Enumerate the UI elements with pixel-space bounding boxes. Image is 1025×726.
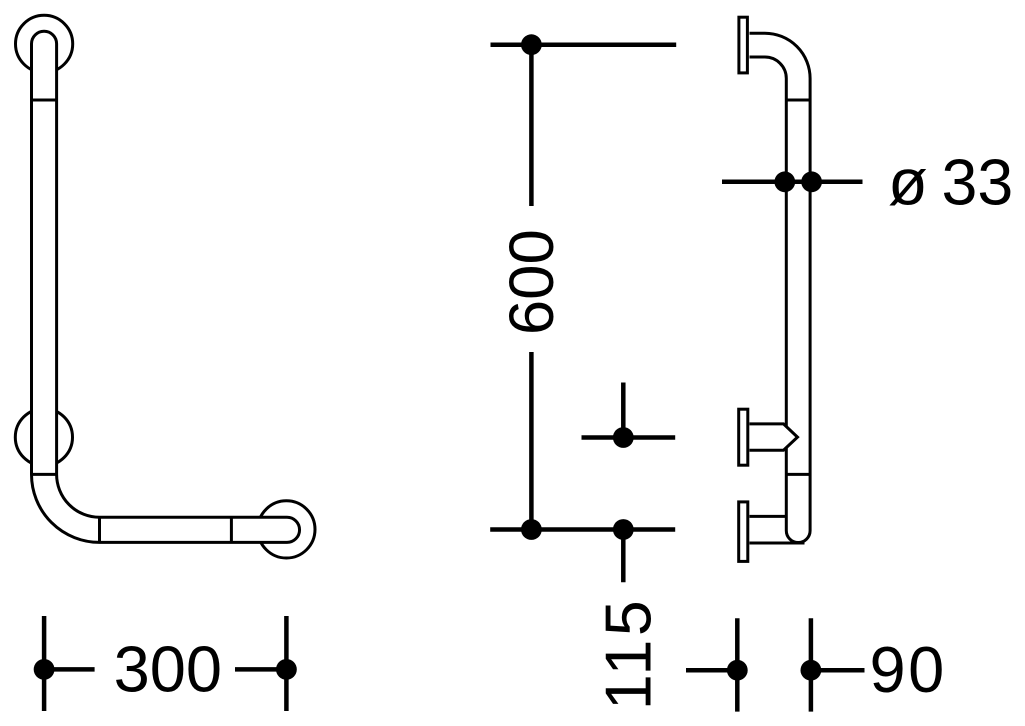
dimension 600: top reference dot [521, 34, 542, 55]
dimension 90: left extension line [735, 618, 740, 711]
svg-text:33: 33 [942, 147, 1014, 219]
side view: lower support arm top edge [750, 515, 787, 518]
front view: corner wall flange circle [15, 409, 72, 466]
dimension 90: left stub line [686, 668, 737, 673]
dimension 300: left stub line [44, 667, 95, 672]
front view: tube joint tick at bend end (horizontal tube) [98, 517, 101, 542]
dimension 600: vertical dimension line lower segment [529, 352, 534, 530]
side view: tube joint tick (upper) [786, 99, 810, 102]
svg-text:300: 300 [114, 633, 222, 706]
dimension 115: upper horizontal reference line [582, 435, 676, 440]
dimension 600: top horizontal reference line [491, 42, 677, 47]
dimension diameter 33: right dot on tube edge [801, 171, 822, 192]
dimension 600/115: bottom shared horizontal reference line [490, 527, 675, 532]
front view: tube joint tick (horizontal tube, right) [230, 517, 233, 542]
side view: middle bracket arm with arrow tip [750, 424, 798, 450]
side view: bottom wall plate [739, 502, 748, 562]
dimension 90: right dot [801, 660, 822, 681]
svg-text:90: 90 [870, 633, 947, 706]
dimension 300: right extension line [284, 616, 289, 711]
dimension 300: left dot [34, 659, 55, 680]
front view: tube joint tick at bend start (vertical tube) [32, 473, 57, 476]
front view: tube joint tick (upper, vertical tube) [32, 99, 57, 102]
front view: top wall flange circle [15, 15, 72, 72]
dimension 600: vertical dimension line upper segment [529, 45, 534, 206]
dimension 300: left extension line [42, 616, 47, 711]
svg-text:600: 600 [497, 229, 567, 335]
front view: right end wall flange circle [258, 501, 315, 558]
svg-text:ø: ø [888, 146, 928, 219]
dimension 600: bottom reference dot [521, 519, 542, 540]
svg-text:115: 115 [592, 597, 664, 710]
side view: tube joint tick (lower) [786, 473, 810, 476]
front view: L-shaped grab bar tube outline [32, 31, 300, 542]
dimension 115: upper reference dot [613, 427, 634, 448]
dimension diameter 33: horizontal reference line [722, 180, 863, 185]
dimension 90: left dot [727, 660, 748, 681]
dimension 115: upper extension line [621, 383, 626, 438]
dimension 90: right stub line [811, 668, 865, 673]
side view: middle bracket wall plate [739, 409, 748, 465]
side view: lower support arm bottom edge [750, 542, 805, 545]
dimension 115: lower extension line segment [621, 530, 626, 583]
dimension 300: right dot [276, 659, 297, 680]
dimension 90: right extension line [809, 618, 814, 711]
dimension 115: lower reference dot [613, 519, 634, 540]
side view: tube (side profile) [750, 33, 811, 542]
dimension 300: right stub line [235, 667, 286, 672]
side view: top wall plate [739, 17, 748, 73]
dimension diameter 33: left dot on tube edge [774, 171, 795, 192]
